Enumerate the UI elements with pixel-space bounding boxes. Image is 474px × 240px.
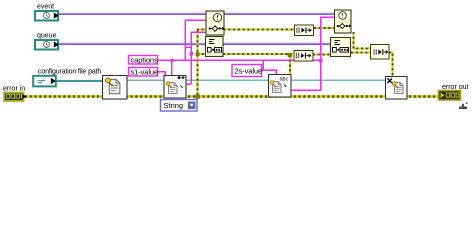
svg-text:2s-value: 2s-value [235,66,263,75]
svg-text:queue: queue [37,33,57,40]
svg-text:error in: error in [3,86,25,93]
svg-text:event: event [37,4,54,11]
svg-text:error out: error out [442,84,469,91]
svg-text:captions: captions [131,56,158,65]
svg-text:configuration file path: configuration file path [38,69,101,76]
svg-text:s1-value: s1-value [131,68,159,77]
svg-text:abc: abc [280,77,289,83]
svg-text:String: String [164,101,184,110]
